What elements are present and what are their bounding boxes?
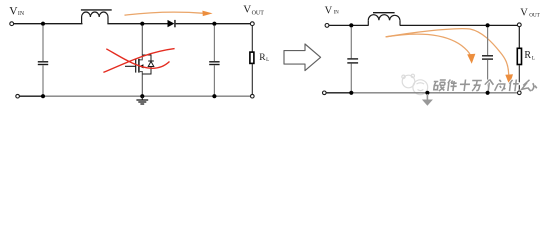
wire top rail: diode to Vout bbox=[176, 23, 253, 25]
label R_L2 bbox=[524, 50, 535, 62]
svg-text:V: V bbox=[520, 8, 528, 19]
node I (input cap junction, bottom right circuit) bbox=[349, 91, 353, 95]
body diode of Q1 cathode bar bbox=[148, 60, 154, 62]
capacitor C3 (input) upper lead bbox=[350, 27, 352, 58]
capacitor C1 (input) upper lead bbox=[42, 26, 44, 62]
red X over Q1 bbox=[103, 49, 174, 73]
bottom-right terminal right circuit (open circle) bbox=[518, 91, 522, 95]
svg-text:R: R bbox=[524, 50, 531, 61]
node C (output cap junction, top) bbox=[212, 22, 216, 26]
orange current arrow (left circuit) bbox=[125, 11, 213, 17]
capacitor C2 (output) upper lead bbox=[213, 26, 215, 62]
wire top rail: inductor to Vout bbox=[400, 24, 519, 26]
node G (input cap junction, top) bbox=[349, 23, 353, 27]
node D (input cap junction, bottom) bbox=[41, 94, 45, 98]
orange current arrow A (inductor to cap) bbox=[386, 34, 476, 64]
capacitor C4 lower lead bbox=[487, 60, 489, 93]
watermark logo (panda badge) bbox=[402, 74, 428, 94]
svg-text:OUT: OUT bbox=[529, 12, 540, 18]
capacitor C2 lower lead bbox=[213, 65, 215, 96]
node A (input cap junction, top) bbox=[41, 22, 45, 26]
node K (output cap junction, bottom right circuit) bbox=[486, 91, 490, 95]
MOSFET Q1 gate lead bbox=[125, 65, 136, 67]
node B (switch junction, top) bbox=[140, 22, 144, 26]
MOSFET Q1 body arrow bbox=[139, 64, 143, 68]
svg-text:IN: IN bbox=[334, 10, 340, 15]
capacitor C1 plates bbox=[38, 62, 48, 65]
capacitor C1 lower lead bbox=[42, 65, 44, 96]
wire bottom rail black segment bbox=[20, 95, 44, 97]
terminal Vin right (open circle) bbox=[325, 24, 329, 28]
block arrow (transition) bbox=[284, 44, 321, 71]
body diode of Q1, top connection bbox=[142, 55, 151, 61]
capacitor C4 plates bbox=[482, 56, 493, 59]
label R_L bbox=[259, 53, 269, 63]
node F (output cap junction, bottom) bbox=[212, 94, 216, 98]
wire top rail: inductor to diode bbox=[107, 23, 167, 25]
inductor L2 bbox=[368, 13, 400, 26]
wire top rail: Vin to inductor bbox=[329, 24, 369, 26]
bottom-right terminal (open circle) bbox=[251, 94, 255, 98]
label V_in bbox=[325, 6, 340, 17]
svg-text:V: V bbox=[243, 4, 251, 16]
MOSFET Q1 drain lead bbox=[139, 26, 142, 60]
MOSFET Q1 channel bar bbox=[138, 59, 140, 73]
svg-text:L: L bbox=[266, 58, 269, 63]
ground (left circuit) bbox=[136, 96, 148, 104]
MOSFET Q1 source lead bbox=[139, 72, 142, 97]
node E (source junction, bottom) bbox=[140, 94, 144, 98]
capacitor C3 lower lead bbox=[350, 64, 352, 93]
label V_OUT bbox=[243, 4, 264, 17]
capacitor C2 plates bbox=[209, 62, 219, 65]
MOSFET Q1 gate bar bbox=[135, 59, 137, 73]
ground (right circuit, gray triangle) bbox=[422, 94, 433, 106]
resistor R_L2 lower lead bbox=[518, 65, 520, 93]
terminal Vout (open circle) bbox=[250, 22, 254, 26]
body diode of Q1, bottom connection bbox=[142, 67, 151, 75]
inductor L1 bbox=[81, 10, 112, 24]
watermark text 硬件十万个为什么 (halo pass) bbox=[433, 80, 538, 92]
label V_out bbox=[520, 8, 540, 19]
label V_IN bbox=[9, 6, 25, 18]
capacitor C4 (output) upper lead bbox=[487, 27, 489, 55]
resistor R_L upper lead bbox=[251, 26, 253, 52]
body diode of Q1 triangle bbox=[148, 61, 154, 66]
resistor R_L2 body bbox=[517, 48, 521, 64]
diode D1 bbox=[168, 20, 176, 27]
svg-text:OUT: OUT bbox=[252, 11, 265, 17]
bottom-left terminal right circuit (open circle) bbox=[323, 91, 327, 95]
resistor R_L body bbox=[250, 52, 254, 63]
wire bottom rail gray segment (right circuit) bbox=[351, 92, 517, 94]
terminal Vin (open circle) bbox=[10, 22, 14, 26]
wire bottom rail black segment (right circuit) bbox=[326, 92, 351, 94]
wire top rail: Vin to inductor bbox=[14, 23, 83, 25]
capacitor C3 plates bbox=[347, 59, 358, 63]
node H (output cap junction, top) bbox=[486, 23, 490, 27]
resistor R_L lower lead bbox=[251, 64, 253, 97]
svg-text:IN: IN bbox=[18, 11, 25, 17]
node J (ground junction) bbox=[425, 91, 429, 95]
terminal Vout right (open circle) bbox=[517, 23, 521, 27]
orange current arrow B (inductor to load) bbox=[386, 29, 513, 86]
svg-text:L: L bbox=[532, 56, 535, 62]
watermark text 硬件十万个为什么 (gray pass) bbox=[433, 80, 538, 92]
resistor R_L2 upper lead bbox=[518, 27, 520, 48]
bottom-left terminal (open circle) bbox=[16, 94, 20, 98]
wire bottom rail gray segment bbox=[43, 95, 251, 97]
svg-text:V: V bbox=[325, 6, 333, 17]
